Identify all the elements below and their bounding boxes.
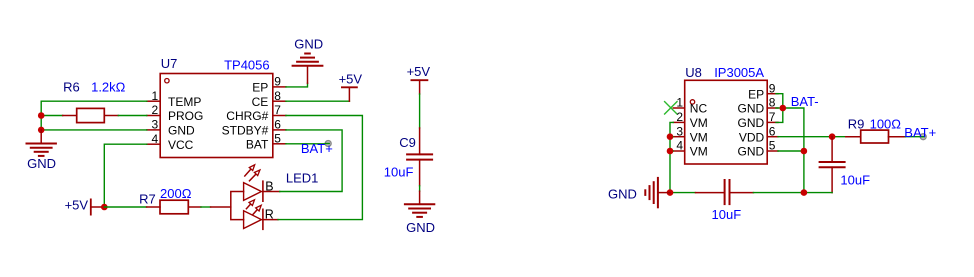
node BAT+ gray port dot right	[920, 134, 926, 140]
pin 7 stub	[273, 115, 286, 117]
LED1 arrows R	[246, 200, 261, 214]
svg-text:R7: R7	[139, 191, 156, 206]
wire LED B up to STDBY#	[280, 130, 342, 192]
svg-text:2: 2	[676, 110, 683, 124]
svg-text:TEMP: TEMP	[168, 95, 201, 109]
svg-text:CE: CE	[252, 95, 269, 109]
LED1 anode bracket	[231, 192, 244, 220]
svg-text:+5V: +5V	[65, 198, 89, 213]
LED1 B cathode lead	[263, 191, 280, 193]
wire pin6 VDD to R9	[778, 136, 846, 138]
wire LED R up to CHRG#	[278, 116, 362, 220]
LED1 R cathode lead	[263, 219, 278, 221]
wire +5V node to R7	[104, 206, 146, 208]
wire LED anode feed	[211, 206, 231, 208]
LED1 B diode triangle	[244, 183, 262, 201]
wire pin9 EP to GND	[286, 83, 308, 87]
capacitor C-right plates	[820, 162, 845, 167]
wire R9 to BAT+	[905, 136, 923, 138]
svg-text:VM: VM	[690, 145, 708, 159]
svg-text:10uF: 10uF	[384, 165, 414, 180]
pin 5 stub	[767, 150, 778, 152]
resistor R6 body	[77, 108, 105, 122]
svg-text:7: 7	[769, 110, 776, 124]
power +5V left (rotated)	[91, 199, 101, 214]
svg-text:R: R	[265, 208, 274, 222]
wire R6 to pin2	[118, 115, 147, 117]
node junction dot B	[38, 127, 45, 134]
pin 7 stub	[767, 121, 778, 123]
pin 9 stub	[273, 86, 286, 88]
svg-text:EP: EP	[748, 87, 764, 101]
ground GND left	[27, 130, 56, 156]
pin 2 stub	[673, 121, 684, 123]
capacitor C9 plates	[407, 154, 432, 159]
svg-text:STDBY#: STDBY#	[222, 124, 269, 138]
capacitor C-bottom lead left	[696, 192, 725, 194]
svg-text:4: 4	[676, 139, 683, 153]
pin 6 stub	[273, 129, 286, 131]
LED1 R diode triangle	[244, 211, 262, 229]
power +5V (C9)	[411, 80, 427, 94]
svg-text:10uF: 10uF	[840, 173, 870, 188]
svg-text:GND: GND	[738, 116, 765, 130]
svg-text:BAT: BAT	[246, 137, 269, 151]
svg-text:8: 8	[769, 96, 776, 110]
node junction pin4	[667, 148, 674, 155]
resistor R7 lead right	[188, 206, 201, 208]
svg-text:NC: NC	[690, 102, 708, 116]
svg-text:U8: U8	[685, 65, 702, 80]
svg-text:1: 1	[152, 89, 159, 103]
svg-text:100Ω: 100Ω	[870, 116, 902, 131]
wire pin1 net	[41, 101, 147, 115]
wire pin8 to tie	[776, 107, 783, 109]
svg-text:CHRG#: CHRG#	[226, 109, 268, 123]
svg-text:3: 3	[676, 124, 683, 138]
ground GND top (inverted)	[293, 54, 323, 84]
svg-text:GND: GND	[738, 102, 765, 116]
svg-text:5: 5	[274, 132, 281, 146]
svg-text:1: 1	[676, 96, 683, 110]
wire vertical node	[40, 116, 42, 130]
wire VM chain	[670, 122, 673, 192]
node junction pin5 run	[801, 148, 808, 155]
svg-text:VM: VM	[690, 130, 708, 144]
svg-text:LED1: LED1	[286, 170, 319, 185]
svg-text:8: 8	[274, 89, 281, 103]
resistor R6 lead left	[63, 115, 77, 117]
pin 5 stub	[273, 143, 286, 145]
svg-text:U7: U7	[161, 56, 178, 71]
svg-text:+5V: +5V	[407, 64, 431, 79]
node junction pin3	[667, 133, 674, 140]
svg-text:+5V: +5V	[339, 72, 363, 87]
pin 1 stub	[147, 100, 160, 102]
wire pin5 BAT to port	[286, 143, 328, 145]
svg-text:200Ω: 200Ω	[160, 186, 192, 201]
wire R7 to LED	[201, 206, 211, 208]
svg-text:10uF: 10uF	[712, 207, 742, 222]
svg-text:PROG: PROG	[168, 109, 203, 123]
wire pin9-pin8-pin7 tie	[776, 94, 783, 123]
resistor R7 body	[160, 200, 188, 214]
capacitor C-right lead top	[831, 137, 833, 162]
resistor R9 body	[861, 130, 889, 143]
resistor R7 lead left	[147, 206, 160, 208]
svg-text:BAT-: BAT-	[791, 94, 819, 109]
svg-text:4: 4	[152, 132, 159, 146]
svg-text:GND: GND	[608, 187, 637, 202]
wire bottom ground run	[670, 192, 696, 194]
op-amp U7 body	[160, 74, 273, 158]
capacitor C-right lead bottom	[831, 167, 833, 192]
wire pin8 CE to +5V	[286, 100, 350, 102]
capacitor C9 lead top	[419, 128, 421, 154]
svg-text:R9: R9	[848, 116, 865, 131]
power +5V (CE)	[342, 87, 357, 101]
wire pin4 to chain	[670, 150, 673, 152]
node junction bottom BAT-	[801, 189, 808, 196]
wire pin4 VCC down	[104, 144, 147, 207]
LED1 arrows B	[245, 165, 260, 181]
wire pin3 to gnd node	[41, 129, 147, 131]
svg-text:3: 3	[152, 118, 159, 132]
node junction pin8	[780, 105, 787, 112]
U7 pin1 marker circle	[165, 79, 169, 83]
svg-text:BAT+: BAT+	[301, 141, 333, 156]
svg-text:9: 9	[769, 81, 776, 95]
capacitor C-bottom plates	[725, 180, 730, 204]
node junction dot R7	[101, 204, 108, 211]
svg-text:VDD: VDD	[739, 130, 765, 144]
node junction dot A	[38, 112, 45, 119]
pin 9 stub	[767, 93, 778, 95]
wire pin3 to chain	[670, 136, 673, 138]
svg-text:R6: R6	[63, 80, 80, 95]
resistor R9 lead left	[846, 136, 861, 138]
wire cap to BAT- node	[753, 192, 832, 194]
svg-text:C9: C9	[399, 135, 416, 150]
svg-text:GND: GND	[738, 145, 765, 159]
svg-text:6: 6	[769, 124, 776, 138]
wire C9 to GND	[419, 186, 421, 192]
svg-text:GND: GND	[294, 37, 323, 52]
pin 1 stub	[673, 107, 684, 109]
svg-text:2: 2	[152, 103, 159, 117]
wire pin8 BAT- run	[783, 108, 804, 193]
svg-text:1.2kΩ: 1.2kΩ	[91, 80, 126, 95]
U8 pin1 marker circle	[690, 100, 694, 104]
LED1 B cathode bar	[262, 181, 264, 201]
svg-text:5: 5	[769, 139, 776, 153]
svg-text:6: 6	[274, 118, 281, 132]
node junction VDD cap	[829, 133, 836, 140]
wire +5V to C9	[419, 94, 421, 128]
svg-text:GND: GND	[406, 220, 435, 235]
svg-text:IP3005A: IP3005A	[714, 65, 764, 80]
svg-text:BAT+: BAT+	[904, 125, 936, 140]
svg-text:7: 7	[274, 103, 281, 117]
wire node to R6 left	[41, 115, 63, 117]
ground GND under C9	[405, 191, 434, 217]
no-connect X pin1	[665, 102, 677, 114]
svg-text:GND: GND	[27, 156, 56, 171]
svg-text:VCC: VCC	[168, 138, 194, 152]
svg-text:GND: GND	[168, 124, 195, 138]
node junction bottom gnd	[667, 189, 674, 196]
node BAT+ gray port dot	[325, 141, 331, 147]
resistor R9 lead right	[889, 136, 906, 138]
LED1 R cathode bar	[262, 209, 264, 229]
pin 6 stub	[767, 136, 778, 138]
pin 8 stub	[273, 100, 286, 102]
svg-text:VM: VM	[690, 116, 708, 130]
svg-text:9: 9	[274, 75, 281, 89]
resistor R6 lead right	[104, 115, 118, 117]
capacitor C9 lead bottom	[419, 160, 421, 186]
pin 3 stub	[147, 129, 160, 131]
op-amp U8 body	[685, 80, 768, 164]
svg-text:B: B	[265, 179, 273, 193]
capacitor C-bottom lead right	[730, 192, 754, 194]
svg-text:EP: EP	[252, 81, 268, 95]
pin 3 stub	[673, 136, 684, 138]
pin 2 stub	[147, 115, 160, 117]
wire pin5 to BAT- run	[778, 150, 804, 152]
svg-text:TP4056: TP4056	[224, 57, 270, 72]
pin 4 stub	[673, 150, 684, 152]
pin 8 stub	[767, 107, 778, 109]
pin 4 stub	[147, 143, 160, 145]
ground GND right (rotated left)	[645, 178, 670, 207]
